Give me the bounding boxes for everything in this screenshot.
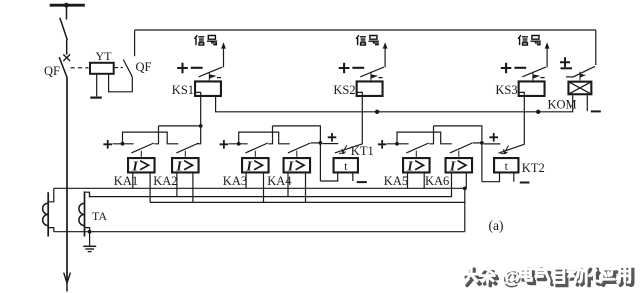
wire KS1 left lead to contact bank 1 [200, 97, 202, 126]
wire bank jumper to second contact [123, 132, 179, 144]
contact KOM flag [579, 72, 581, 81]
wire KT1 feed hook [320, 174, 337, 182]
svg-text:QF: QF [44, 64, 60, 78]
svg-text:I: I [131, 160, 138, 175]
relay KA5 coil box [403, 158, 430, 172]
svg-text:@: @ [500, 265, 519, 287]
contact KA first linkage [140, 151, 142, 157]
wire KT2 right lead [513, 174, 515, 182]
wire second contact right terminal [311, 142, 321, 144]
wire KA1 left lead [132, 174, 134, 189]
current transformer TA right winding [84, 191, 86, 236]
contact KA first linkage [254, 151, 256, 157]
plus supply bank [103, 140, 112, 149]
wire bank feed [229, 143, 248, 145]
plus supply bank [220, 140, 229, 149]
contact KS2 blade [360, 67, 384, 77]
wire second contact right terminal [473, 142, 482, 144]
svg-text:QF: QF [136, 60, 152, 74]
wire bank output upper [273, 126, 321, 143]
contact KA second linkage [458, 151, 460, 157]
svg-text:TA: TA [92, 209, 107, 223]
wire KT2 feed hook [482, 174, 500, 182]
wire KT1 contact left terminal [323, 143, 339, 145]
contact KA first blade [131, 143, 153, 153]
contact KS1 blade [199, 67, 223, 77]
contact KT1 delayed blade [335, 144, 362, 153]
wire rail down to KOM contact [595, 30, 597, 65]
disconnector QS blade [60, 18, 68, 40]
dashed linkage YT to QF aux [115, 67, 123, 69]
KT2 delay arrow [504, 146, 509, 153]
wire QF aux top terminal [134, 30, 136, 56]
svg-text:KS1: KS1 [172, 83, 194, 97]
wire YT right lead loop to QF aux contact [109, 74, 133, 91]
wire trip positive rail top [135, 29, 596, 31]
feeder arrow head [64, 273, 71, 283]
wire bank output upper [434, 126, 482, 143]
breaker QF cross mark [63, 54, 70, 61]
ground symbol [89, 232, 91, 246]
minus supply KOM [561, 67, 573, 69]
svg-text:KA2: KA2 [153, 174, 177, 188]
signal label XinHao for KS1 [195, 35, 218, 45]
svg-text:KA5: KA5 [384, 174, 408, 188]
svg-text:I: I [406, 160, 413, 175]
svg-text:KS3: KS3 [495, 83, 517, 97]
contact KOM blade [566, 76, 573, 78]
wire KA4 right lead [305, 174, 307, 203]
breaker QF blade [59, 57, 67, 77]
wire phase C from TA to KA relays [90, 174, 452, 197]
wire return KA1 lead [149, 174, 151, 203]
plus supply KT2 contact [489, 133, 498, 142]
contact KA first blade [406, 143, 428, 153]
signal relay KS2 coil box [357, 81, 383, 96]
wire first contact right terminal [154, 126, 158, 144]
signal label XinHao for KS2 [356, 35, 379, 45]
wire KA6 right lead [465, 174, 467, 189]
contact KA second linkage [296, 151, 298, 157]
main feeder line [66, 77, 68, 283]
negative bar below YT [90, 96, 102, 98]
wire bank jumper to second contact [397, 132, 452, 144]
plus supply KS2 [339, 63, 350, 74]
node bank feed [121, 142, 125, 146]
wire KOM right lead [586, 95, 588, 111]
signal arrow KS1 [221, 42, 226, 48]
svg-text:(a): (a) [489, 218, 504, 233]
wire bank feed [113, 143, 134, 145]
plus supply bank [378, 140, 387, 149]
svg-text:I: I [287, 160, 294, 175]
wire YT left lead [96, 74, 98, 96]
wire return bus [150, 201, 465, 203]
wire TA left top hook [48, 188, 54, 202]
trip coil YT box [90, 63, 114, 74]
coil KS3 inner lead hook [519, 92, 524, 97]
coil KS2 inner lead hook [357, 92, 362, 97]
svg-text:KA6: KA6 [425, 174, 449, 188]
node KS2 on trip bus [375, 110, 379, 114]
signal relay KS1 coil box [195, 81, 221, 96]
wire TA right top hook [85, 192, 90, 197]
KOM box cross [569, 82, 592, 94]
wire trip bus KS coils to KOM coil [216, 95, 573, 112]
wire bank jumper to second contact [239, 132, 290, 144]
signal relay KS3 coil box [519, 81, 545, 96]
wire KA3 left lead [245, 174, 247, 189]
svg-text:KOM: KOM [548, 97, 577, 111]
current transformer TA left winding [47, 192, 49, 236]
wire KA3 right lead [263, 174, 265, 203]
wire disconnector to breaker [66, 39, 68, 54]
wire ground bus [54, 231, 465, 233]
contact KS2 flag [370, 72, 372, 81]
svg-text:KS2: KS2 [333, 83, 355, 97]
node busbar tap [64, 3, 69, 8]
wire KT1 right lead [352, 174, 354, 182]
plus supply KOM [560, 57, 570, 67]
wire KA5 left lead [407, 174, 409, 189]
signal arrow KS2 [383, 42, 388, 48]
relay KA2 coil box [172, 158, 199, 172]
wire bank feed [387, 143, 409, 145]
svg-text:KA1: KA1 [114, 174, 138, 188]
minus supply KS3 [514, 67, 526, 69]
contact KA second blade [288, 143, 310, 153]
busbar [50, 4, 85, 7]
output relay KOM coil box [568, 82, 591, 95]
wire TA left bottom hook [48, 228, 54, 232]
contact KA second linkage [184, 151, 186, 157]
svg-text:KA3: KA3 [223, 174, 247, 188]
wire KA5 right lead [423, 174, 425, 189]
wire KT2 contact left terminal [484, 143, 500, 145]
wire bank output down to KT coil [319, 143, 321, 181]
plus supply KT1 contact [328, 133, 337, 142]
svg-text:I: I [449, 160, 456, 175]
wire KA4 left lead [287, 174, 289, 197]
signal arrow KS3 [545, 42, 550, 48]
minus terminal KOM [591, 110, 601, 112]
wire busbar to disconnector [66, 5, 68, 19]
relay KT1 coil box [334, 158, 358, 172]
wire bank output to KS coil [159, 125, 201, 127]
wire phase A from TA to KA relays [54, 187, 465, 189]
wire return down to ground bus [464, 188, 466, 231]
node bank feed [237, 142, 241, 146]
node bank feed [395, 142, 399, 146]
svg-text:KT2: KT2 [522, 161, 545, 175]
relay KA3 coil box [242, 158, 268, 172]
coil KS1 inner lead hook [196, 92, 201, 97]
KT1 delay arrow [342, 145, 347, 152]
minus supply KS2 [352, 67, 364, 69]
wire KA2 right lead [192, 174, 194, 203]
contact KA second blade [450, 143, 472, 153]
wire KS2 left lead to KT1 contact [361, 97, 363, 144]
contact KS3 blade [522, 67, 546, 77]
wire bank output down to KT coil [481, 143, 483, 182]
node bank output [199, 124, 203, 128]
contact KA first blade [245, 143, 267, 153]
node KS3 on trip bus [536, 110, 540, 114]
wire KS3 left lead to KT2 contact [523, 97, 525, 145]
contact KT2 delayed blade [499, 144, 525, 153]
relay KA4 coil box [284, 158, 311, 172]
svg-text:KT1: KT1 [351, 144, 374, 158]
contact KS1 flag [208, 72, 210, 81]
dashed linkage breaker to YT [71, 67, 89, 69]
relay KA6 coil box [446, 158, 473, 172]
minus supply KS1 [191, 67, 203, 69]
svg-text:I: I [175, 160, 182, 175]
wire first contact right terminal [268, 126, 272, 144]
contact KS3 flag [532, 72, 534, 81]
minus terminal KT1 [357, 181, 367, 183]
node bank output [480, 141, 484, 145]
wire first contact right terminal [429, 126, 433, 144]
node ground tap [88, 230, 92, 234]
plus supply KS1 [177, 63, 188, 74]
contact KA first linkage [415, 151, 417, 157]
wire second contact right terminal [197, 126, 201, 144]
signal label XinHao for KS3 [518, 35, 541, 45]
wire KA2 left lead [176, 174, 178, 197]
contact KA second blade [176, 143, 198, 153]
QF auxiliary contact blade [123, 60, 132, 77]
svg-text:YT: YT [96, 49, 113, 63]
node KA6 return [463, 187, 467, 191]
relay KT2 coil box [494, 158, 518, 172]
relay KA1 coil box [128, 158, 155, 172]
node bank output [319, 141, 323, 145]
wire TA right bottom hook [85, 228, 90, 232]
svg-text:I: I [245, 160, 252, 175]
minus terminal KT2 [520, 182, 530, 184]
plus supply KS3 [501, 63, 512, 74]
watermark TouTiao electrical automation [463, 265, 632, 290]
